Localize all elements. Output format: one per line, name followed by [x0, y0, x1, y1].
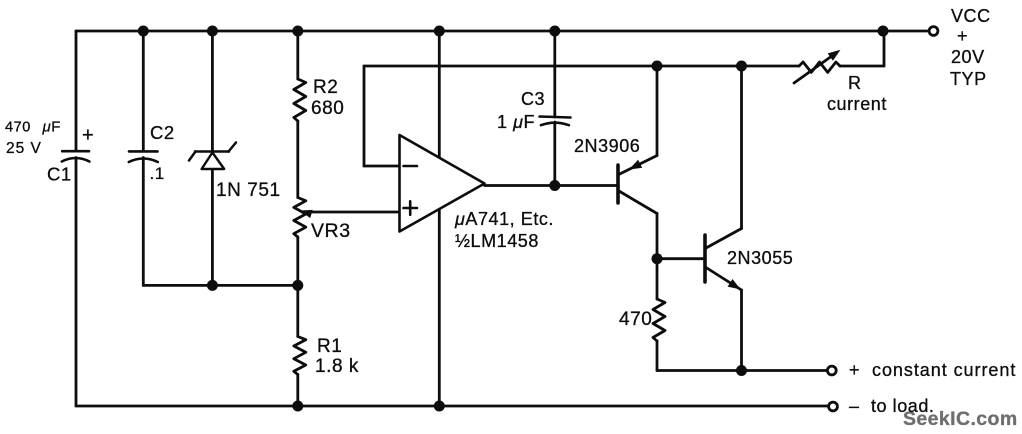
wire Q2 emitter down [740, 290, 743, 371]
variable resistor R current [799, 62, 840, 72]
junction bottom R1 [292, 401, 303, 412]
junction emitter output [736, 365, 747, 376]
junction Q2 base node [652, 253, 663, 264]
junction top C3 [549, 26, 560, 37]
terminal to load [829, 402, 838, 411]
svg-text:constant current: constant current [872, 360, 1016, 380]
zener diode 1N751 [195, 150, 229, 153]
wire C2 branch [142, 31, 145, 151]
junction top right corner [878, 26, 889, 37]
op-amp U1 uA741 [400, 135, 485, 232]
svg-text:+: + [82, 125, 94, 147]
junction sense Q2 [736, 61, 747, 72]
wire Q1 collector down [656, 214, 659, 259]
wire C3 branch [553, 31, 556, 117]
wire left vertical C1 branch [75, 31, 78, 151]
svg-text:R1: R1 [317, 336, 342, 357]
wire node to R1 [296, 285, 299, 336]
svg-text:C3: C3 [521, 89, 545, 109]
wire R2 to VR3 [296, 121, 299, 198]
wire opamp supply vertical [438, 31, 441, 406]
svg-text:+: + [849, 360, 860, 380]
wire opamp output [485, 184, 617, 187]
junction top supply [434, 26, 445, 37]
junction sense Q1 [652, 61, 663, 72]
potentiometer VR3 [294, 198, 306, 238]
resistor R1 [294, 337, 306, 375]
capacitor C1 [62, 150, 89, 153]
svg-text:current: current [827, 94, 887, 114]
svg-text:1N 751: 1N 751 [216, 180, 281, 201]
wire Q2 base [657, 257, 704, 260]
wire bottom rail [76, 405, 828, 408]
svg-text:μA741, Etc.: μA741, Etc. [454, 209, 554, 229]
svg-text:2N3906: 2N3906 [574, 136, 640, 156]
svg-text:VR3: VR3 [311, 220, 351, 242]
wire VR3 to node [296, 237, 299, 285]
svg-text:C1: C1 [47, 164, 72, 185]
svg-text:.1: .1 [150, 164, 165, 183]
terminal VCC [929, 27, 938, 36]
svg-text:VCC: VCC [951, 6, 991, 26]
wire feedback sense line [364, 165, 400, 168]
junction bottom supply [434, 401, 445, 412]
svg-text:+: + [957, 26, 968, 46]
svg-text:470: 470 [5, 120, 31, 136]
svg-text:470: 470 [619, 309, 652, 330]
svg-text:μF: μF [42, 119, 62, 136]
wire Q2 collector up [740, 66, 743, 229]
svg-text:½LM1458: ½LM1458 [455, 231, 539, 251]
wire zener branch [211, 31, 214, 152]
VR3 wiper arrow [306, 211, 400, 214]
transistor Q2 2N3055 [703, 235, 707, 282]
svg-text:20V: 20V [951, 47, 985, 67]
svg-text:2N3055: 2N3055 [727, 248, 793, 268]
junction top zener [207, 26, 218, 37]
junction zener bottom [207, 280, 218, 291]
junction top C2 [138, 26, 149, 37]
wire R1 to bottom rail [296, 375, 299, 407]
svg-text:–: – [849, 396, 860, 416]
junction VR3 bottom [292, 280, 303, 291]
junction output C3 [549, 180, 560, 191]
junction top R2 [292, 26, 303, 37]
terminal constant current [827, 366, 836, 375]
capacitor C2 [129, 150, 158, 153]
svg-text:C2: C2 [150, 122, 175, 143]
wire 470 to output line [656, 341, 659, 371]
svg-text:1.8 k: 1.8 k [315, 356, 359, 377]
svg-text:to load.: to load. [871, 396, 934, 416]
wire node to 470 [656, 259, 659, 299]
svg-text:1 μF: 1 μF [497, 112, 535, 132]
capacitor C3 [540, 117, 571, 118]
svg-text:25 V: 25 V [6, 140, 42, 157]
wire R2 column top [296, 31, 299, 79]
wire Q1 emitter up [656, 66, 659, 156]
svg-text:TYP: TYP [950, 69, 987, 89]
wire top rail [76, 30, 929, 33]
svg-text:680: 680 [311, 98, 344, 119]
transistor Q1 2N3906 [616, 165, 620, 203]
svg-text:R: R [848, 73, 862, 93]
svg-text:R2: R2 [313, 77, 338, 98]
resistor R2 [294, 79, 306, 121]
resistor 470 [653, 299, 665, 341]
